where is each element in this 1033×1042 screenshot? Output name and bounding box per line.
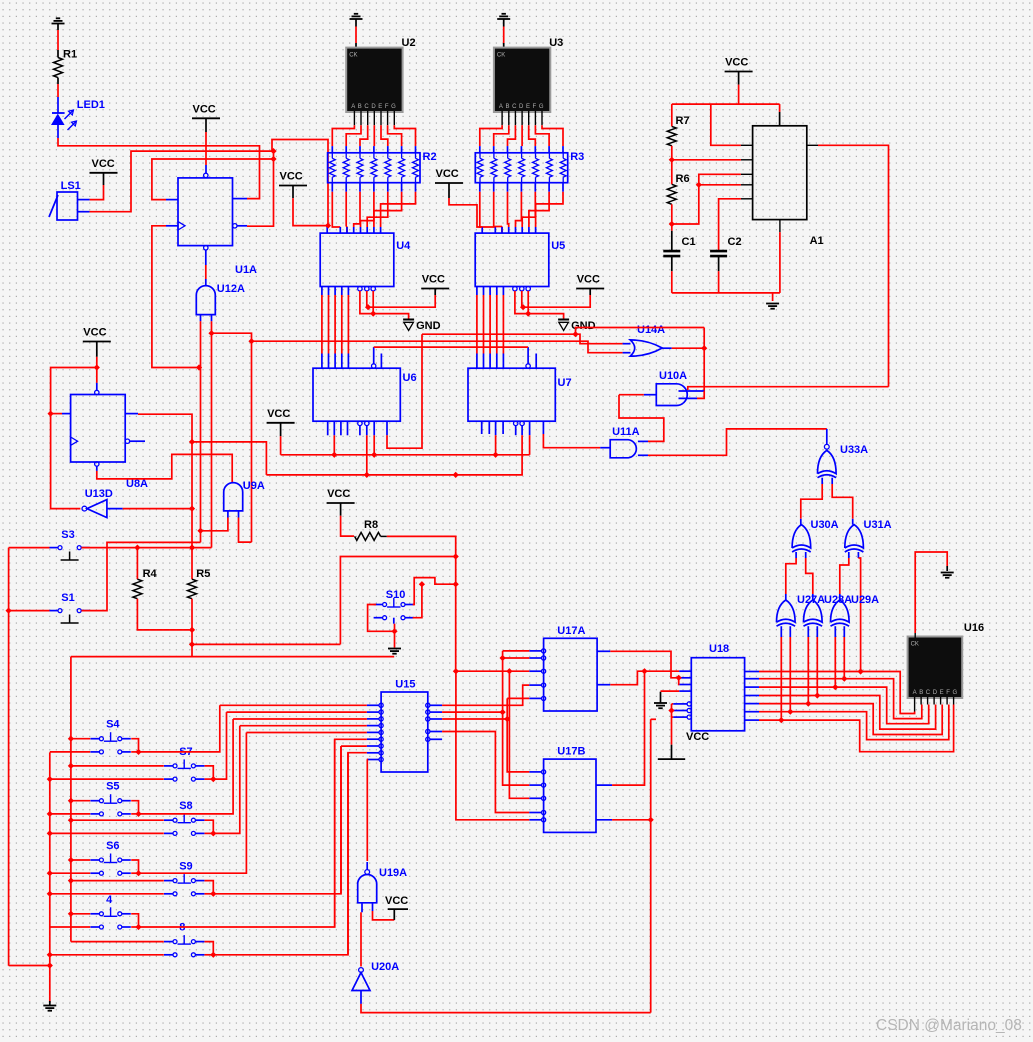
junction	[504, 716, 510, 722]
junction	[391, 628, 397, 634]
junction	[210, 830, 216, 836]
svg-text:U20A: U20A	[371, 961, 399, 973]
wire	[483, 287, 485, 369]
wire	[672, 103, 780, 105]
junction	[832, 684, 838, 690]
wire	[741, 184, 753, 186]
wire	[481, 227, 483, 233]
IC U4	[320, 233, 411, 286]
wire	[380, 354, 382, 369]
wire	[442, 711, 503, 713]
wire	[718, 256, 720, 293]
wire	[367, 744, 383, 748]
wire	[90, 151, 272, 212]
svg-text:CK: CK	[349, 53, 357, 59]
switch 8	[164, 922, 204, 957]
wire	[672, 159, 741, 161]
wire	[780, 626, 782, 720]
wire	[529, 669, 545, 673]
wire	[600, 447, 610, 449]
wire	[741, 198, 753, 200]
junction	[68, 763, 74, 769]
watermark	[876, 1017, 1022, 1034]
wire	[745, 711, 759, 713]
junction	[135, 870, 141, 876]
wire	[759, 687, 929, 724]
timer A1	[753, 126, 824, 247]
wire	[233, 718, 367, 720]
svg-text:U16: U16	[964, 622, 984, 634]
wire	[678, 678, 681, 685]
wire	[367, 737, 383, 741]
wire	[57, 84, 59, 97]
wire	[205, 118, 207, 173]
junction	[47, 811, 53, 817]
wire	[205, 726, 240, 834]
7-segment display U2	[345, 37, 415, 113]
wire	[426, 729, 442, 733]
wire	[426, 710, 442, 714]
wire	[509, 671, 529, 798]
gate U13D	[82, 488, 192, 518]
svg-text:4: 4	[106, 894, 113, 906]
wire	[442, 685, 529, 705]
resistor R1	[54, 49, 78, 85]
wire	[529, 696, 545, 700]
wire	[374, 346, 528, 348]
wire	[711, 104, 741, 145]
wire	[125, 414, 192, 580]
junction	[189, 544, 195, 550]
wire	[476, 287, 478, 369]
switch S10	[374, 589, 414, 624]
svg-text:U7: U7	[558, 377, 572, 389]
wire	[387, 334, 422, 448]
junction	[669, 221, 675, 227]
wire	[434, 289, 436, 296]
junction	[94, 364, 100, 370]
wire	[372, 347, 376, 368]
svg-text:U5: U5	[551, 240, 565, 252]
junction	[453, 668, 459, 674]
wire	[326, 227, 329, 233]
wire	[131, 733, 246, 874]
wire	[672, 174, 741, 224]
junction	[696, 182, 702, 188]
wire	[596, 819, 651, 821]
wire	[358, 421, 362, 435]
wire	[456, 670, 530, 672]
wire	[852, 519, 854, 525]
gate U19A	[358, 867, 407, 903]
wire	[367, 730, 383, 734]
wire	[205, 250, 207, 286]
wire	[679, 390, 705, 392]
svg-text:U10A: U10A	[659, 370, 687, 382]
junction	[572, 331, 578, 337]
wire	[192, 643, 340, 645]
wire	[529, 818, 545, 822]
svg-text:U33A: U33A	[840, 444, 868, 456]
junction	[135, 924, 141, 930]
power VCC	[267, 408, 295, 423]
svg-text:CSDN @Mariano_08: CSDN @Mariano_08	[876, 1017, 1022, 1034]
svg-text:R2: R2	[423, 151, 437, 163]
wire	[340, 421, 342, 435]
wire	[152, 226, 199, 368]
switch S9	[164, 861, 204, 896]
wire	[131, 801, 138, 814]
wire	[50, 751, 90, 753]
wire	[806, 552, 813, 600]
junction	[189, 544, 195, 550]
svg-text:U18: U18	[709, 643, 729, 655]
junction	[857, 668, 863, 674]
wire	[481, 421, 483, 434]
wire bundle	[332, 183, 415, 233]
gate U28A	[804, 594, 853, 626]
wire	[347, 421, 349, 435]
ground	[497, 14, 510, 49]
svg-text:S4: S4	[106, 719, 120, 731]
wire	[759, 705, 954, 752]
svg-text:R6: R6	[676, 173, 690, 185]
svg-text:U27A: U27A	[797, 594, 825, 606]
gate U9A	[224, 480, 265, 511]
wire	[9, 610, 50, 612]
ground	[388, 649, 401, 654]
wire	[503, 651, 530, 785]
wire	[334, 287, 336, 369]
wire	[71, 738, 90, 740]
wire	[661, 690, 680, 692]
wire	[50, 872, 90, 874]
wire	[367, 757, 383, 761]
svg-text:U3: U3	[549, 37, 563, 49]
wire	[387, 536, 456, 671]
wire	[840, 552, 849, 600]
wire	[576, 328, 705, 334]
svg-text:U4: U4	[396, 240, 411, 252]
wire	[50, 832, 164, 834]
resistor R8	[355, 519, 387, 540]
wire	[679, 690, 691, 692]
wire	[413, 584, 422, 618]
svg-text:R7: R7	[676, 115, 690, 127]
wire	[507, 698, 529, 772]
wire	[71, 941, 164, 943]
7-segment display U3	[493, 37, 563, 113]
svg-text:S3: S3	[61, 529, 74, 541]
svg-text:VCC: VCC	[83, 327, 106, 339]
wire	[9, 547, 50, 549]
wire	[801, 478, 822, 519]
power VCC	[385, 895, 408, 920]
wire	[340, 746, 342, 893]
wire	[426, 717, 442, 721]
wire	[529, 770, 545, 774]
wire	[807, 145, 889, 386]
svg-text:U11A: U11A	[612, 426, 640, 438]
wire	[281, 423, 530, 455]
flip-flop U1A	[178, 173, 257, 276]
resistor R5	[188, 568, 211, 599]
wire	[489, 287, 491, 369]
wire	[688, 387, 889, 390]
junction	[525, 310, 531, 316]
wire	[51, 413, 71, 415]
wire	[191, 599, 193, 657]
svg-text:R4: R4	[143, 568, 158, 580]
wire	[367, 717, 383, 721]
wire	[347, 287, 349, 369]
junction	[68, 817, 74, 823]
wire	[367, 751, 383, 755]
power VCC	[435, 168, 463, 183]
power VCC	[192, 103, 220, 118]
wire	[786, 552, 796, 600]
wire	[703, 328, 705, 392]
svg-text:U28A: U28A	[824, 594, 852, 606]
junction	[499, 709, 505, 715]
junction	[47, 891, 53, 897]
gate U33A	[818, 444, 869, 478]
junction	[210, 776, 216, 782]
wire	[251, 341, 253, 542]
svg-text:ABCDEFG: ABCDEFG	[499, 104, 546, 110]
speaker LS1	[49, 180, 90, 220]
junction	[365, 304, 371, 310]
svg-text:C2: C2	[728, 236, 742, 248]
junction	[841, 676, 847, 682]
resistor pack R3	[475, 151, 584, 183]
wire	[673, 715, 691, 719]
switch S3	[50, 529, 90, 560]
wire	[940, 697, 942, 705]
svg-text:S8: S8	[179, 800, 192, 812]
junction	[47, 962, 53, 968]
svg-text:VCC: VCC	[280, 171, 303, 183]
wire	[71, 765, 164, 767]
svg-text:VCC: VCC	[422, 274, 445, 286]
wire	[662, 347, 704, 349]
junction	[68, 736, 74, 742]
wire	[529, 421, 531, 455]
wire	[58, 138, 260, 199]
junction	[676, 675, 682, 681]
wire	[360, 291, 409, 320]
wire	[293, 186, 328, 226]
wire	[81, 542, 200, 610]
power VCC	[83, 327, 111, 342]
wire	[779, 220, 781, 293]
svg-text:U9A: U9A	[243, 480, 265, 492]
resistor R7	[667, 104, 689, 146]
svg-text:U29A: U29A	[851, 594, 879, 606]
IC U17B	[544, 746, 596, 833]
wire	[832, 478, 853, 519]
wire	[205, 753, 349, 955]
wire	[70, 657, 72, 942]
wire	[522, 291, 590, 307]
junction	[47, 830, 53, 836]
junction	[135, 811, 141, 817]
wire	[81, 547, 211, 549]
wire	[834, 626, 836, 687]
svg-text:U12A: U12A	[217, 283, 245, 295]
svg-text:VCC: VCC	[686, 731, 709, 743]
switch S8	[164, 800, 204, 835]
wire	[719, 199, 741, 251]
wire	[361, 991, 651, 1013]
wire	[672, 704, 674, 745]
junction	[208, 330, 214, 336]
wire	[131, 705, 220, 752]
wire	[488, 421, 490, 434]
ground	[941, 573, 954, 578]
wire	[679, 684, 691, 686]
wire bundle	[332, 111, 415, 153]
svg-text:U1A: U1A	[235, 264, 257, 276]
wire	[789, 626, 791, 712]
wire	[348, 753, 367, 955]
wire	[137, 599, 192, 630]
wire	[200, 315, 202, 543]
switch S6	[90, 840, 130, 875]
junction	[210, 891, 216, 897]
wire	[759, 696, 936, 730]
wire	[650, 719, 652, 1012]
wire	[426, 737, 442, 741]
junction	[189, 627, 195, 633]
wire	[205, 942, 214, 955]
junction	[248, 338, 254, 344]
wire	[745, 719, 759, 721]
wire	[422, 334, 623, 344]
wire	[672, 292, 780, 294]
wire	[526, 347, 530, 368]
junction	[68, 798, 74, 804]
power VCC	[576, 274, 604, 289]
wire	[366, 760, 369, 862]
wire	[367, 291, 435, 307]
svg-text:VCC: VCC	[436, 168, 459, 180]
switch S7	[164, 746, 204, 781]
wire	[227, 711, 367, 713]
wire	[920, 697, 922, 705]
junction	[453, 581, 459, 587]
ground	[43, 1001, 56, 1011]
wire	[367, 703, 383, 707]
svg-text:R5: R5	[196, 568, 210, 580]
junction	[701, 345, 707, 351]
wire	[623, 343, 631, 345]
wire	[449, 183, 482, 227]
wire	[456, 671, 529, 820]
gate U14A	[630, 324, 665, 356]
junction	[648, 817, 654, 823]
wire	[679, 391, 705, 398]
junction	[47, 776, 53, 782]
junction	[189, 505, 195, 511]
flip-flop U8A	[71, 390, 148, 490]
svg-text:LED1: LED1	[77, 99, 105, 111]
power VCC	[658, 731, 709, 759]
wire	[233, 198, 248, 200]
gate U30A	[792, 519, 839, 552]
wire	[50, 778, 164, 780]
wire	[9, 965, 50, 967]
junction	[189, 439, 195, 445]
junction	[520, 304, 526, 310]
svg-text:U13D: U13D	[85, 488, 113, 500]
IC U7	[468, 368, 572, 421]
gate U20A	[352, 961, 399, 991]
wire	[240, 725, 367, 727]
wire	[50, 954, 164, 956]
svg-text:U30A: U30A	[811, 519, 839, 531]
wire	[71, 859, 90, 861]
wire	[205, 766, 214, 779]
IC U4 enable pins	[358, 287, 376, 291]
junction	[331, 452, 337, 458]
wire	[745, 678, 759, 680]
wire	[50, 926, 90, 928]
wire	[367, 710, 383, 714]
wire	[252, 341, 623, 353]
wire	[502, 287, 504, 369]
switch S1	[50, 592, 90, 623]
7-segment display U16	[907, 622, 984, 699]
gate U10A	[656, 370, 687, 406]
wire	[327, 421, 329, 435]
resistor pack R2	[328, 151, 437, 183]
IC U15	[381, 679, 428, 773]
wire	[335, 739, 367, 926]
wire	[367, 724, 383, 728]
wire	[596, 671, 645, 785]
svg-text:R1: R1	[63, 49, 77, 61]
wire	[529, 683, 545, 687]
wire	[97, 454, 232, 482]
junction	[189, 641, 195, 647]
wire	[341, 745, 367, 747]
junction	[805, 700, 811, 706]
wire	[619, 394, 656, 396]
wire	[807, 626, 809, 703]
wire	[205, 712, 227, 779]
wire	[192, 442, 266, 475]
wire	[205, 746, 342, 894]
wire	[597, 651, 679, 678]
wire	[71, 880, 164, 882]
IC U6	[313, 368, 417, 421]
wire	[131, 860, 138, 873]
wire	[205, 820, 214, 833]
wire	[738, 72, 740, 105]
wire	[671, 146, 673, 185]
svg-text:S1: S1	[61, 592, 74, 604]
gate U12A	[196, 283, 245, 315]
capacitor C2	[710, 236, 741, 256]
svg-text:U19A: U19A	[379, 867, 407, 879]
junction	[370, 310, 376, 316]
wire	[373, 903, 395, 920]
wire	[131, 719, 233, 814]
wire	[648, 429, 827, 455]
ground	[654, 692, 667, 709]
wire	[535, 354, 537, 369]
